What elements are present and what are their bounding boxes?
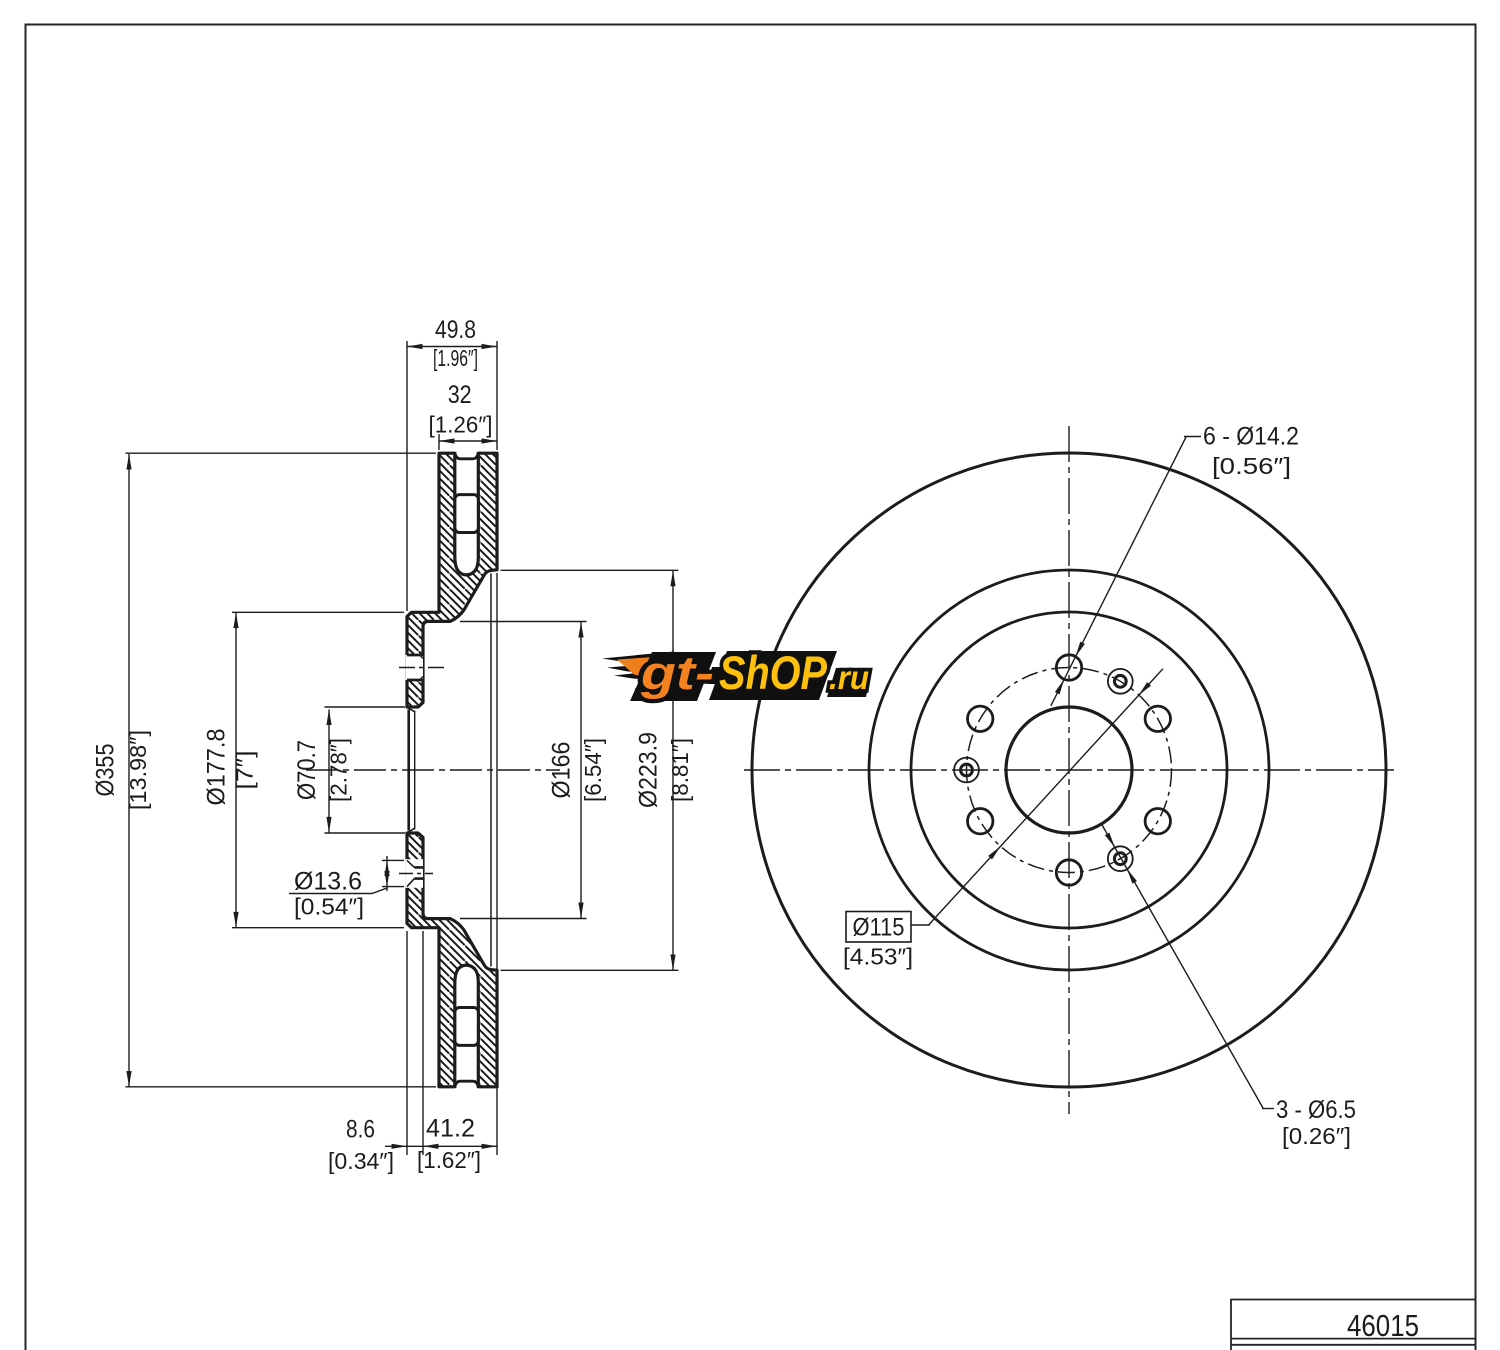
bolt hole 330deg <box>1145 809 1170 834</box>
extension lines centre bore <box>325 707 406 833</box>
extension lines friction inner dia <box>501 570 679 970</box>
set screw hole 60deg <box>1108 669 1133 694</box>
lower vane seen through vent <box>455 1008 478 1046</box>
bolt hole 30deg <box>1145 706 1170 731</box>
dimension 32 friction width <box>439 440 497 442</box>
svg-text:Ø223.9: Ø223.9 <box>635 732 663 808</box>
lower vent opening floor edge <box>455 1081 478 1086</box>
svg-text:[0.56″]: [0.56″] <box>1212 453 1291 479</box>
bolt hole centerline <box>399 667 446 669</box>
svg-text:[6.54″]: [6.54″] <box>580 738 606 802</box>
svg-text:46015: 46015 <box>1347 1308 1419 1343</box>
upper vent channel (white slot) <box>455 451 479 575</box>
leader 6-D14.2 to top bolt hole <box>1051 437 1186 706</box>
speed line streaks <box>602 652 678 664</box>
title block <box>1231 1300 1476 1350</box>
extension line hat inner face <box>422 931 424 1155</box>
svg-text:gt-: gt- <box>640 646 714 699</box>
bolt circle D115 (dash-dot) <box>967 668 1172 873</box>
svg-text:49.8: 49.8 <box>435 316 476 344</box>
svg-text:3 - Ø6.5: 3 - Ø6.5 <box>1276 1096 1356 1124</box>
svg-text:[1.26″]: [1.26″] <box>429 412 493 438</box>
disc section upper half (hatched solid) <box>407 453 497 707</box>
svg-text:32: 32 <box>448 381 472 409</box>
vertical centerline <box>1068 426 1070 1114</box>
upper vent opening floor edge <box>455 454 478 459</box>
svg-text:Ø13.6: Ø13.6 <box>294 868 362 896</box>
svg-text:[1.62″]: [1.62″] <box>417 1147 481 1173</box>
dimension 8.6 flange thickness <box>385 1145 497 1147</box>
set screw hole centerline <box>399 873 433 875</box>
bolt hole through hat flange (section) <box>406 655 423 680</box>
dimension D13.6 set screw pilot <box>382 860 404 886</box>
svg-text:8.6: 8.6 <box>346 1116 375 1144</box>
dimension D223.9 friction inner dia <box>672 571 674 970</box>
neck silhouette edge between steps <box>490 574 492 967</box>
section axis centerline <box>306 769 560 771</box>
leader 3-D6.5 to set screw hole <box>1102 825 1263 1109</box>
upper vane seen through vent <box>455 495 478 533</box>
svg-text:[7″]: [7″] <box>232 751 258 790</box>
svg-text:[8.81″]: [8.81″] <box>667 738 693 802</box>
dimension 49.8 overall width <box>407 346 497 348</box>
set screw hole 300deg <box>1108 846 1133 871</box>
extension line friction face right <box>496 341 498 1155</box>
svg-text:[2.78″]: [2.78″] <box>326 738 352 802</box>
svg-text:[0.34″]: [0.34″] <box>328 1148 394 1174</box>
centre bore circle D70.7 <box>1006 707 1132 833</box>
outer diameter circle <box>752 453 1386 1087</box>
lower vent channel (white slot) <box>455 965 479 1089</box>
svg-text:[0.26″]: [0.26″] <box>1282 1123 1351 1149</box>
friction band inner circle D223.9 <box>869 570 1269 970</box>
hat circle D177.8 <box>911 612 1227 928</box>
svg-text:6 - Ø14.2: 6 - Ø14.2 <box>1203 423 1299 451</box>
svg-text:[13.98″]: [13.98″] <box>125 730 151 810</box>
logo black slab backing <box>630 652 716 701</box>
extension line friction face left <box>438 434 440 450</box>
set screw hole 180deg <box>954 758 979 783</box>
disc section lower half (hatched solid) <box>407 833 497 1087</box>
extension lines OD <box>126 453 437 1087</box>
centre bore edges <box>407 710 410 831</box>
bolt hole 90deg <box>1056 655 1081 680</box>
bolt circle dimension line D115 <box>929 669 1163 925</box>
svg-text:Ø70.7: Ø70.7 <box>293 740 321 800</box>
svg-text:[0.54″]: [0.54″] <box>294 894 364 920</box>
extension lines hat OD <box>232 612 404 927</box>
extension line left face <box>406 341 408 1155</box>
dimension 41.2 hat depth <box>423 1144 439 1149</box>
svg-text:Ø166: Ø166 <box>548 742 576 799</box>
extension lines hat inner dia <box>460 622 587 919</box>
label D115 box <box>846 912 911 943</box>
dimension D177.8 hat dia <box>235 613 237 928</box>
svg-text:[1.96″]: [1.96″] <box>433 345 478 371</box>
svg-text:.ru: .ru <box>829 659 869 696</box>
svg-text:ShOP: ShOP <box>719 646 828 699</box>
bolt hole 150deg <box>968 706 993 731</box>
set screw hole through hat flange (section) <box>405 859 423 888</box>
horizontal centerline <box>744 769 1394 771</box>
svg-text:41.2: 41.2 <box>426 1115 475 1143</box>
svg-text:Ø115: Ø115 <box>853 914 905 942</box>
bolt hole 210deg <box>968 809 993 834</box>
svg-text:[4.53″]: [4.53″] <box>843 944 913 970</box>
dimension D166 hat inner dia <box>580 622 582 918</box>
svg-text:Ø355: Ø355 <box>92 744 120 797</box>
svg-text:Ø177.8: Ø177.8 <box>203 729 231 806</box>
bolt hole 270deg <box>1056 860 1081 885</box>
dimension D355 outer dia <box>128 454 130 1087</box>
dimension D70.7 centre bore <box>328 710 330 833</box>
